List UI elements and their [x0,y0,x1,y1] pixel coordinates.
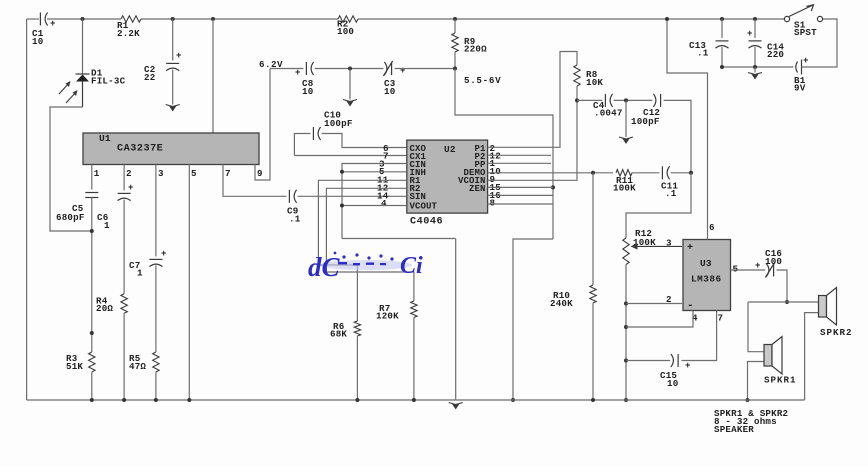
svg-text:10K: 10K [586,77,603,88]
wire C9 to U2 pin14 [298,195,407,197]
wire R6 to rail [356,336,358,400]
junction node R8/C4/VCOIN [575,98,579,102]
wire pin8 row [488,203,553,205]
svg-text:+: + [295,68,301,78]
svg-text:C4046: C4046 [410,217,443,228]
svg-text:+: + [400,66,406,76]
resistor R11 [616,170,632,176]
junction node U1 top [211,17,215,21]
wire C4 to C12 wire [614,99,653,101]
wire U1 pin3 wire [155,165,157,257]
svg-text:+: + [128,183,134,193]
wire bottom ground rail [27,399,805,401]
capacitor C9 [289,190,296,203]
wire SPKR2 return [805,313,820,400]
junction node C13 bottom [720,65,724,69]
junction node ZEN pin15 [551,185,555,189]
capacitor C6 [118,193,131,200]
junction node D1 top [81,17,85,21]
resistor R5 [153,352,159,372]
svg-text:5: 5 [191,168,197,179]
wire pin2 P1 to R8 top [488,52,577,148]
svg-text:8: 8 [490,198,496,209]
junction node R3 top [90,331,94,335]
wire C6 to R4 wire [123,200,125,294]
junction node rail R5 [154,398,158,402]
svg-text:FIL-3C: FIL-3C [91,76,126,87]
svg-text:+: + [161,249,167,259]
svg-text:Ci: Ci [400,253,423,279]
wire pin5 row [342,171,407,173]
wire battery row left [722,66,794,68]
D1 light arrows [59,81,78,103]
wire center ground drop [455,239,457,401]
svg-text:1: 1 [104,220,110,231]
junction node rail SPKR1 [746,398,750,402]
capacitor C13 [716,41,729,48]
junction node R9 bottom [453,67,457,71]
junction node pin5 tie [340,170,344,174]
wire C15 to R12 vertical [626,360,670,362]
svg-text:SIN: SIN [410,192,427,202]
wire C11 right wire [671,172,691,174]
capacitor C3 [383,61,392,76]
svg-text:.1: .1 [665,188,677,199]
svg-text:2: 2 [126,168,132,179]
wire bottom tie row [342,238,456,240]
svg-text:LM386: LM386 [691,274,722,285]
wire pin8 drop to rail [513,239,553,400]
wire 6.2V rail b [315,68,384,70]
svg-text:U3: U3 [700,258,712,269]
capacitor C1 [40,13,47,26]
junction node rail R6 [355,398,359,402]
capacitor C8 [306,62,313,75]
svg-text:+: + [755,261,761,271]
wire U1 pin7 to C9 [223,165,286,197]
svg-text:47Ω: 47Ω [129,361,146,372]
capacitor C14 [749,41,762,48]
resistor R6 [354,321,360,336]
wire C10 right loop to pin6 [322,134,407,148]
wire pin15 ZEN row [488,186,553,188]
svg-text:CA3237E: CA3237E [117,144,163,155]
resistor R8 [574,65,580,86]
svg-text:10: 10 [302,86,313,97]
wire battery ground stem [754,67,756,73]
svg-text:VCOUT: VCOUT [410,202,438,212]
svg-text:100K: 100K [613,183,636,194]
capacitor C16 [765,263,774,278]
svg-text:100: 100 [337,26,354,37]
wire pin12 P2 row [488,154,551,156]
battery B1 [796,60,802,75]
svg-text:100pF: 100pF [324,118,353,129]
wire mid ground wire [349,69,351,100]
wire speaker top row [748,301,820,303]
svg-text:100: 100 [765,256,782,267]
svg-text:22: 22 [144,72,155,83]
svg-text:2.2K: 2.2K [117,28,140,39]
R12 wiper arrow [631,243,683,249]
wire C13 bottom wire [721,47,723,67]
svg-text:5: 5 [733,264,739,275]
wire R12 bottom vertical [625,265,627,401]
svg-text:680pF: 680pF [56,212,85,223]
wire C2 top wire [172,19,174,61]
svg-text:.1: .1 [289,214,301,225]
ground ground center [449,403,463,410]
capacitor C5 [85,193,98,198]
switch S1 [784,5,822,22]
svg-text:SPST: SPST [794,27,817,38]
wire pin10 DEMO row to R11 [488,172,613,174]
capacitor C2 [166,63,179,70]
wire U3 pin7 to C15 [681,311,716,361]
svg-text:100pF: 100pF [631,116,660,127]
svg-text:51K: 51K [66,361,83,372]
op-amp U1 CA3237E [83,133,259,165]
svg-text:120K: 120K [376,311,399,322]
svg-text:10: 10 [667,378,678,389]
svg-text:+: + [50,19,56,29]
junction node rail R3 [90,398,94,402]
junction node C11/C12 [689,171,693,175]
svg-text:10: 10 [384,86,395,97]
wire U3 pin5 out wire [731,269,766,271]
svg-text:U2: U2 [444,144,456,155]
resistor R10 [590,285,596,303]
junction node C14 bottom [753,65,757,69]
svg-text:+: + [176,51,182,61]
op-amp U2 C4046 [407,140,488,213]
wire SPKR1 return [748,362,765,401]
svg-text:+: + [687,243,693,254]
capacitor C12 [653,94,660,107]
wire U1 pin2 wire [123,165,125,191]
wire C16 to speakers node [777,270,787,302]
wire pin7 row [294,155,406,157]
resistor R3 [89,352,95,372]
wire top rail left stub [27,18,39,20]
wire pin9 VCOIN to R8 bottom [488,100,577,180]
wire C7 to R5 wire [155,266,157,353]
junction node speakers [785,300,789,304]
ground ground battery [748,73,762,80]
wire pin16 row [488,194,553,196]
svg-text:7: 7 [225,168,231,179]
junction node rail R4 [122,398,126,402]
svg-text:SPKR2: SPKR2 [820,327,853,338]
wire U3 pin4 row [626,311,693,328]
wire R4 to rail [123,313,125,400]
junction node C5/D1 [90,229,94,233]
resistor R7 [411,301,417,318]
wire top rail R2 to S1 [358,18,784,20]
wire supply to U3 pin6 [667,19,708,240]
svg-text:20Ω: 20Ω [96,303,113,314]
wire top rail R1 to R2 [141,18,338,20]
wire C10 left loop [294,134,310,156]
svg-text:+: + [685,361,691,371]
svg-text:220Ω: 220Ω [464,44,487,55]
wire U1 pin9 to 6.2V rail [255,69,270,181]
resistor R4 [121,294,127,314]
wire R3 to rail [91,372,93,400]
junction node supply top [665,17,669,21]
wire R9 top wire [454,19,456,33]
wire R8 bottom wire [576,86,578,100]
junction node C13 top [720,17,724,21]
wire C4 left wire [577,99,602,101]
ground ground 6.2V rail [343,100,357,107]
svg-text:U1: U1 [99,133,111,144]
op-amp U3 LM386 [683,240,731,311]
capacitor C7 [149,259,162,266]
junction node rail R7 [412,398,416,402]
wire R10 top wire [592,173,594,285]
svg-text:-: - [687,300,694,312]
wire R10 to rail [592,303,594,400]
wire D1 anode wire [82,19,84,74]
svg-text:9V: 9V [794,83,806,94]
capacitor C10 [313,127,320,140]
junction node C4/C12 ground [624,98,628,102]
junction node rail R12 [624,398,628,402]
wire mid ground wire 2 [625,100,627,137]
photodiode D1 [76,74,90,107]
wire pin11 to R6 [318,180,406,321]
capacitor C4 [605,94,612,107]
svg-text:5.5-6V: 5.5-6V [464,75,501,86]
svg-text:3: 3 [158,168,164,179]
svg-text:1: 1 [137,268,143,279]
svg-text:ZEN: ZEN [469,184,486,194]
svg-text:SPEAKER: SPEAKER [714,424,754,435]
svg-text:1: 1 [94,168,100,179]
wire supply feed to U2 right [455,69,553,240]
resistor R12 [623,238,629,265]
wire R9 bottom wire [454,52,456,69]
svg-text:dC: dC [308,252,341,282]
svg-text:7: 7 [718,313,724,324]
svg-text:68K: 68K [330,329,347,340]
junction node rail R10 [591,398,595,402]
wire U1 top feed [212,19,214,133]
speaker SPKR1 [764,337,782,375]
wire C11 node to R12 top [626,173,691,238]
junction node rail pin5 [187,398,191,402]
resistor R9 [452,33,458,52]
wire C14 bottom wire [754,47,756,67]
capacitor C11 [662,166,669,179]
wire U1 pin1 lower wire [91,198,93,353]
svg-text:.0047: .0047 [594,108,623,119]
capacitor C15 [671,354,678,367]
ground ground C4/C12 [619,137,633,144]
wire 6.2V rail a [270,68,303,70]
svg-text:SPKR1: SPKR1 [764,375,797,386]
resistor R2 [338,16,358,22]
svg-text:4: 4 [381,198,387,209]
wire C14 top wire [754,19,756,38]
junction node C8/C3 ground [348,67,352,71]
svg-text:+: + [803,56,809,66]
junction node R9 top [453,17,457,21]
wire 6.2V rail c [395,68,455,70]
resistor R1 [121,16,141,22]
wire pin3 tie vertical [342,164,407,239]
junction node C14 top [753,17,757,21]
junction node C15 row [624,359,628,363]
svg-text:+: + [747,29,753,39]
wire R7 to rail [413,318,415,401]
svg-text:9: 9 [257,168,263,179]
svg-text:6: 6 [709,222,715,233]
wire R11 to C11 [632,172,659,174]
wire U1 pin1 wire [91,165,93,190]
svg-text:3: 3 [666,238,672,249]
junction node R10 top [591,171,595,175]
svg-text:.1: .1 [697,48,709,59]
wire R5 to rail [155,372,157,400]
wire U3 pin2 row [626,303,682,305]
junction node rail pin8 [511,398,515,402]
wire U1 pin5 wire [188,165,190,401]
wire C12 to R11 row [664,100,691,172]
wire top rail C1 to R1 [47,18,121,20]
speaker SPKR2 [819,288,837,326]
wire left rail vertical [26,19,28,400]
junction node pin2 row [624,302,628,306]
svg-text:10: 10 [32,36,43,47]
svg-text:240K: 240K [550,298,573,309]
junction node pin4 row [624,325,628,329]
wire battery to switch wire [802,19,838,67]
wire D1 cathode to C5 node [50,107,92,231]
wire pin12 to R7 [326,188,414,301]
wire C13 top wire [721,19,723,38]
junction node C2 top [171,17,175,21]
ground ground C2 [166,105,180,112]
svg-text:220: 220 [767,49,784,60]
wire C2 to ground wire [172,70,174,105]
junction node pin4 tie [340,204,344,208]
blue watermark scribble [308,252,423,282]
wire pin4 row [342,205,407,207]
wire SPKR1 feed [748,302,764,352]
wire pin1 PP row [488,162,551,164]
